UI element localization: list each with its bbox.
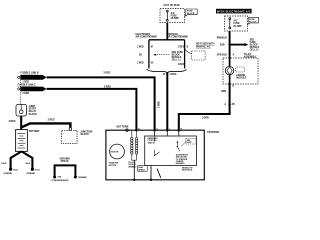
junction dashed box near cable <box>62 130 77 143</box>
wire right branch (manual A/C) <box>184 40 186 69</box>
svg-text:2 RED: 2 RED <box>22 93 29 95</box>
svg-text:6 RED: 6 RED <box>104 87 111 89</box>
svg-text:STARTER: STARTER <box>207 130 219 134</box>
wire right column from fuse down <box>229 31 231 58</box>
switch contact 1 <box>154 155 155 156</box>
fuse F1 A/C FUSE 25 AMP <box>166 10 168 21</box>
wire left branch (electronic A/C) <box>148 40 150 69</box>
svg-text:STRAP: STRAP <box>61 160 69 163</box>
fuse block tag (right) <box>247 17 258 24</box>
svg-text:2 RED: 2 RED <box>170 74 177 76</box>
svg-text:MANUAL: MANUAL <box>169 33 180 36</box>
fuse F2 <box>229 18 231 29</box>
wire battery positive cable <box>21 123 70 127</box>
svg-text:SPD BLK: SPD BLK <box>217 55 227 57</box>
svg-text:HOT IN RUN: HOT IN RUN <box>164 3 180 7</box>
sensor gauge symbol <box>229 58 231 66</box>
wire tee bar under headers <box>149 39 185 41</box>
fuse block tag (middle) <box>185 9 197 16</box>
svg-text:1 RED: 1 RED <box>137 63 144 65</box>
svg-text:START: START <box>29 108 37 111</box>
jump start block J1 <box>16 104 27 116</box>
ground G100 <box>9 168 12 171</box>
fuse block dashed box (top right) <box>225 16 248 31</box>
svg-text:2B: 2B <box>232 104 235 106</box>
node small label box lower left of solenoid <box>138 166 148 172</box>
engine module inner dashed pill <box>236 67 245 72</box>
wire windings to case ground <box>133 160 135 179</box>
svg-text:FUSIBLE LINK B: FUSIBLE LINK B <box>20 73 38 75</box>
svg-text:3 RED: 3 RED <box>9 121 16 123</box>
svg-text:1 RED: 1 RED <box>178 47 185 49</box>
svg-text:M: M <box>151 47 153 49</box>
svg-text:1 BLK: 1 BLK <box>25 163 31 165</box>
wire stubs into solenoid <box>154 130 156 136</box>
solenoid windings <box>131 130 138 160</box>
svg-text:2 RED: 2 RED <box>48 119 55 121</box>
svg-text:ORN: ORN <box>221 91 226 93</box>
wire solenoid to case ground <box>150 166 152 180</box>
svg-text:CELL 11: CELL 11 <box>250 49 259 51</box>
node splice A / 2B <box>228 103 230 105</box>
ground G35 <box>74 176 77 179</box>
svg-text:TO A/C: TO A/C <box>244 53 252 56</box>
svg-text:BLOCK: BLOCK <box>249 21 257 23</box>
solenoid inner box <box>145 136 197 166</box>
svg-text:BAT TERM: BAT TERM <box>117 126 129 129</box>
node cable ring terminal <box>69 128 72 131</box>
svg-text:(TRANSMISSION): (TRANSMISSION) <box>52 179 69 182</box>
svg-text:NOT USED WITH: NOT USED WITH <box>196 44 215 46</box>
wire brace joining branches <box>147 69 187 72</box>
svg-text:HEAT SHLD: HEAT SHLD <box>182 169 193 172</box>
wire from link B <box>47 89 137 130</box>
fusible link B <box>18 88 20 90</box>
fuse block dashed box (top middle) <box>160 9 185 23</box>
wire elbow to starter <box>179 114 230 130</box>
svg-text:AIR CONDITIONING: AIR CONDITIONING <box>136 36 158 39</box>
ground G34 <box>53 176 56 179</box>
svg-text:1 BLK: 1 BLK <box>1 163 7 165</box>
wire down from coolant box <box>229 84 231 115</box>
node black header bar top right <box>216 9 252 14</box>
svg-text:ELECTRONIC: ELECTRONIC <box>136 34 151 36</box>
node terminal dots <box>135 129 137 131</box>
connector dashed box right of manual branch <box>185 49 192 54</box>
svg-text:CELL 11: CELL 11 <box>172 60 182 62</box>
battery BAT1 <box>16 130 28 152</box>
coolant sensor dashed box <box>223 58 258 84</box>
svg-text:A/C: A/C <box>171 12 175 15</box>
svg-text:PNK/BLK: PNK/BLK <box>217 37 228 39</box>
svg-text:AIR CONDITIONING: AIR CONDITIONING <box>167 36 189 39</box>
svg-text:1 RED: 1 RED <box>178 64 185 66</box>
wire motor strap <box>157 169 161 178</box>
wire from fuse down to A/C tee <box>166 23 168 40</box>
svg-text:1 RED: 1 RED <box>22 82 29 84</box>
svg-text:NOTE: NOTE <box>187 142 193 144</box>
svg-text:1 ORN: 1 ORN <box>202 117 209 119</box>
svg-text:2 RED: 2 RED <box>104 72 111 74</box>
svg-text:STARTER: STARTER <box>109 161 119 164</box>
svg-text:2 RED: 2 RED <box>159 101 161 108</box>
wire from brace to starter solenoid terminal <box>166 72 168 130</box>
note pointer see fuse block details <box>155 54 171 56</box>
ground G101 <box>31 168 34 171</box>
wire dotted from links to jump start block <box>19 80 21 105</box>
switch contact 2 <box>177 146 178 147</box>
node splice at box bottom <box>229 83 231 85</box>
fusible link A <box>18 76 20 78</box>
svg-text:MANUAL A/C: MANUAL A/C <box>196 45 211 48</box>
svg-text:25 AMP: 25 AMP <box>233 25 242 28</box>
svg-text:A/C: A/C <box>233 20 237 23</box>
svg-text:BLOCK: BLOCK <box>81 134 90 136</box>
wire from link A <box>47 77 155 130</box>
svg-text:(FRAME): (FRAME) <box>4 172 13 175</box>
svg-text:SWITCH: SWITCH <box>148 142 156 144</box>
svg-text:WITH ELECTRONIC A/C: WITH ELECTRONIC A/C <box>217 10 251 13</box>
svg-text:G101: G101 <box>35 169 41 171</box>
note dashed box in solenoid <box>186 138 196 144</box>
svg-text:MOTOR: MOTOR <box>111 152 119 154</box>
svg-text:BLOCK: BLOCK <box>187 13 195 15</box>
svg-text:RELAY: RELAY <box>29 110 37 113</box>
svg-text:BATTERY: BATTERY <box>29 130 40 133</box>
wire battery negative legs <box>11 151 22 168</box>
node splice S2B <box>228 43 230 45</box>
svg-text:MODULE: MODULE <box>236 78 246 80</box>
svg-text:2B: 2B <box>139 55 142 57</box>
wire arrow to fuse block details <box>230 44 246 46</box>
wire jump block to battery <box>20 116 22 130</box>
svg-text:S2B: S2B <box>220 44 225 47</box>
svg-text:WINDING: WINDING <box>128 166 137 168</box>
svg-text:BLOCK: BLOCK <box>29 114 38 116</box>
svg-text:SHIELD: SHIELD <box>138 169 145 171</box>
svg-text:(FRAME): (FRAME) <box>78 176 87 179</box>
svg-text:25 AMP: 25 AMP <box>171 17 180 20</box>
starter motor M <box>110 144 125 159</box>
svg-text:1 RED: 1 RED <box>137 47 144 49</box>
starter outer box <box>106 130 204 180</box>
svg-text:HARNESS: HARNESS <box>176 162 186 165</box>
svg-text:(FRAME): (FRAME) <box>27 172 36 175</box>
svg-text:MOTOR: MOTOR <box>109 165 117 167</box>
